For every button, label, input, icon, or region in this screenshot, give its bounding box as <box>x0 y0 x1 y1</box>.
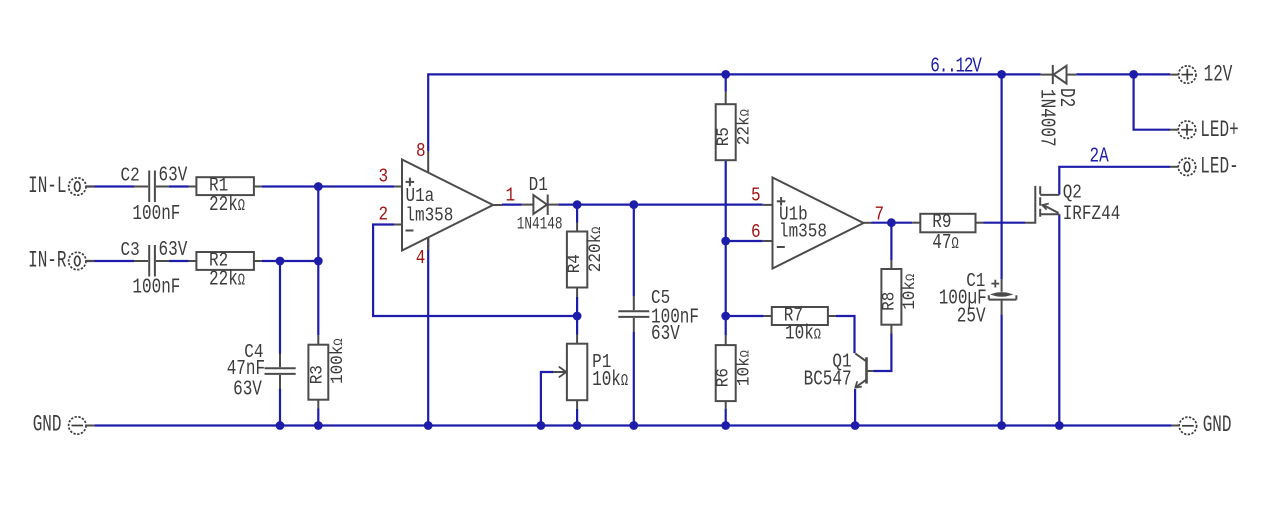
svg-text:63V: 63V <box>159 162 188 187</box>
node junction C5 top <box>629 200 638 209</box>
terminal IN-R <box>69 252 95 269</box>
wire C4 top <box>279 261 281 354</box>
resistor R6 <box>716 335 736 409</box>
svg-text:100nF: 100nF <box>132 274 180 299</box>
wire R2 to mix node <box>262 260 318 262</box>
svg-text:lm358: lm358 <box>779 221 827 243</box>
wire D2 anode to 12V <box>1076 73 1170 75</box>
potentiometer P1 <box>553 335 587 410</box>
svg-text:25V: 25V <box>957 303 986 328</box>
terminal GND right <box>1172 417 1197 434</box>
terminal GND left <box>69 417 95 434</box>
svg-text:10kΩ: 10kΩ <box>785 323 821 345</box>
node junction C1 plus rail <box>997 70 1006 79</box>
svg-text:100kΩ: 100kΩ <box>328 338 348 384</box>
svg-text:12V: 12V <box>1204 62 1233 87</box>
node junction R8 top <box>887 218 896 227</box>
svg-text:22kΩ: 22kΩ <box>735 109 755 145</box>
node junction GND pin4 <box>424 421 433 430</box>
svg-text:LED+: LED+ <box>1200 117 1238 142</box>
svg-text:10kΩ: 10kΩ <box>592 367 628 392</box>
wire P1 bottom to GND <box>576 409 578 426</box>
resistor R5 <box>716 92 736 161</box>
svg-text:R4: R4 <box>566 254 586 273</box>
resistor R3 <box>308 335 328 409</box>
svg-text:5: 5 <box>751 185 761 207</box>
wire P1 wiper to GND <box>541 372 554 426</box>
wire D1 cathode to U1b pin 5 <box>558 204 763 206</box>
node junction GND Q1 emitter <box>851 421 860 430</box>
wire pin6 stub <box>726 240 763 242</box>
wire R4 bottom to feedback <box>576 297 578 316</box>
wire R8 bottom to Q1 base <box>874 334 892 372</box>
svg-text:IN-R: IN-R <box>28 248 67 273</box>
terminal LED plus <box>1170 121 1196 138</box>
node junction R1/mix <box>314 182 323 191</box>
node junction R4/P1/feedback <box>573 312 582 321</box>
svg-text:1N4007: 1N4007 <box>1035 89 1060 147</box>
diode D2 <box>1041 65 1077 84</box>
wire U1a pin 2 feedback <box>373 225 577 317</box>
node junction R5 top <box>721 70 730 79</box>
op-amp U1a <box>394 151 502 251</box>
resistor R2 <box>189 252 263 270</box>
svg-text:lm358: lm358 <box>405 205 453 227</box>
resistor R8 <box>881 260 901 333</box>
node junction GND P1 <box>573 421 582 430</box>
node junction D1/R4 <box>573 200 582 209</box>
resistor R4 <box>567 223 587 298</box>
wire rail to C1 plus <box>1000 74 1002 279</box>
node junction LED plus tap <box>1129 70 1138 79</box>
svg-text:220kΩ: 220kΩ <box>586 226 606 272</box>
svg-text:LED-: LED- <box>1200 154 1238 179</box>
svg-text:3: 3 <box>379 166 389 188</box>
wire U1b pin7 to R9 <box>872 222 913 224</box>
wire pin6 node to R6 <box>725 241 727 335</box>
wire U1a output to D1 <box>502 204 522 206</box>
node junction pin6 <box>721 237 730 246</box>
wire R7 left to junction <box>726 315 764 317</box>
node junction GND R3 <box>314 421 323 430</box>
wire R9 to Q2 gate <box>984 222 1026 224</box>
svg-text:10kΩ: 10kΩ <box>900 273 920 309</box>
node junction GND C1 <box>997 421 1006 430</box>
svg-text:Q2: Q2 <box>1063 182 1082 204</box>
svg-text:63V: 63V <box>159 237 188 262</box>
wire R5 top lead <box>725 74 727 91</box>
op-amp U1b <box>763 178 872 269</box>
wire D1 node to R4 <box>576 205 578 223</box>
mosfet Q2 <box>1025 186 1059 223</box>
node junction R6/R7/feedback <box>721 312 730 321</box>
node junction GND Q2 source <box>1055 421 1064 430</box>
svg-text:1N4148: 1N4148 <box>517 214 563 234</box>
wire LED minus to Q2 drain <box>1059 167 1170 195</box>
node junction GND C5 <box>629 421 638 430</box>
svg-text:100nF: 100nF <box>132 201 180 226</box>
wire C1 minus to GND <box>1000 314 1002 425</box>
node junction GND R6 <box>721 421 730 430</box>
wire IN-L to C2 <box>87 185 135 187</box>
wire P1 top <box>576 316 578 335</box>
svg-text:C2: C2 <box>121 165 140 187</box>
resistor R7 <box>764 307 836 325</box>
capacitor C2 <box>134 171 169 203</box>
terminal LED minus <box>1170 158 1196 175</box>
wire top rail 6..12V <box>428 74 1041 151</box>
svg-text:63V: 63V <box>233 376 262 401</box>
svg-text:R5: R5 <box>714 127 734 146</box>
svg-text:IN-L: IN-L <box>28 173 66 198</box>
svg-text:47Ω: 47Ω <box>932 230 959 255</box>
node junction GND wiper <box>537 421 546 430</box>
wire C5 top lead <box>633 205 635 296</box>
svg-text:8: 8 <box>416 141 426 163</box>
wire C5 to GND <box>633 332 635 426</box>
wire R6 to GND <box>725 409 727 426</box>
svg-text:6: 6 <box>751 222 761 244</box>
svg-text:R8: R8 <box>880 292 900 311</box>
terminal 12V <box>1170 66 1196 83</box>
capacitor C4 <box>265 354 296 390</box>
svg-text:BC547: BC547 <box>804 366 852 391</box>
svg-text:7: 7 <box>875 204 885 226</box>
svg-text:C3: C3 <box>121 239 140 261</box>
svg-text:1: 1 <box>506 185 516 207</box>
wire U1a pin 4 to GND <box>427 238 429 426</box>
wire R1 to U1a pin 3 <box>262 185 394 187</box>
node junction C4 tap <box>276 257 285 266</box>
svg-text:D1: D1 <box>529 175 548 197</box>
transistor Q1 <box>855 354 873 388</box>
capacitor C5 <box>618 296 649 332</box>
wire C2 to R1 <box>169 185 189 187</box>
wire Q2 source to GND <box>1058 214 1060 425</box>
wire GND rail <box>95 424 1172 426</box>
diode D1 <box>522 195 559 216</box>
wire R5 to U1b pin 6 <box>725 160 727 241</box>
svg-text:10kΩ: 10kΩ <box>735 350 755 386</box>
wire R8 top lead <box>890 223 892 261</box>
wire to LED plus terminal <box>1134 74 1170 129</box>
capacitor C1 polarized <box>989 279 1017 314</box>
svg-text:2: 2 <box>379 204 389 226</box>
svg-text:R6: R6 <box>714 368 734 387</box>
node junction mix/IN-R <box>314 257 323 266</box>
resistor R1 <box>189 177 263 195</box>
svg-text:4: 4 <box>416 248 426 270</box>
wire R7 right to Q1 collector <box>836 316 855 353</box>
svg-text:2A: 2A <box>1090 143 1110 168</box>
wire R3 to GND <box>317 409 319 426</box>
wire IN-R to C3 <box>87 260 135 262</box>
svg-text:GND: GND <box>1203 412 1232 437</box>
node junction GND C4 <box>276 421 285 430</box>
svg-text:6..12V: 6..12V <box>930 53 982 78</box>
wire C4 to GND <box>279 389 281 426</box>
terminal IN-L <box>69 178 95 195</box>
wire mix vertical x318 <box>317 187 319 262</box>
svg-text:63V: 63V <box>651 321 680 346</box>
svg-text:GND: GND <box>33 412 62 437</box>
svg-text:R3: R3 <box>308 365 328 384</box>
resistor R9 <box>912 214 983 233</box>
wire mix to R3 <box>317 261 319 335</box>
svg-text:IRFZ44: IRFZ44 <box>1063 204 1121 226</box>
wire Q1 emitter to GND <box>854 389 856 426</box>
wire C3 to R2 <box>169 260 189 262</box>
capacitor C3 <box>134 245 169 277</box>
